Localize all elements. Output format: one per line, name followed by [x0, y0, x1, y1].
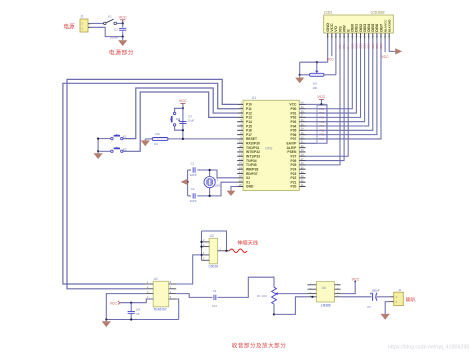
- U2 pin 4: [146, 298, 154, 300]
- connector J2 (speaker): [390, 288, 404, 306]
- U2 pin 6: [169, 293, 177, 295]
- U3 pin 3: [202, 246, 210, 248]
- wire LCD DB1 to P01: [306, 39, 357, 114]
- MCU U1 (AT89C51 CPU): [243, 100, 299, 190]
- wire buttons common left: [97, 139, 99, 152]
- capacitor C3 10uF: [178, 114, 194, 123]
- svg-text:J2: J2: [398, 288, 402, 292]
- wire LCD BLK/GND pin16: [389, 39, 395, 52]
- node pot wiper tie: [316, 61, 318, 63]
- ground (buttons): [97, 151, 99, 153]
- node button K2 left: [97, 150, 99, 152]
- capacitor C5 104: [130, 303, 132, 312]
- svg-text:VCC: VCC: [327, 58, 335, 62]
- pin 39 P00: [299, 108, 305, 110]
- svg-text:12M: 12M: [214, 184, 220, 188]
- U4 pin 4: [307, 296, 316, 298]
- audio amp U4 LM386: [316, 282, 334, 302]
- wire LCD DB4 to P04: [306, 39, 369, 127]
- svg-text:LCD1602: LCD1602: [371, 11, 385, 15]
- svg-text:U1: U1: [252, 96, 256, 100]
- pin 25 P24: [299, 168, 305, 170]
- svg-text:GND: GND: [246, 185, 254, 189]
- wire U3 pin4 to TEA5767: [176, 255, 201, 284]
- pin 20 GND: [237, 185, 243, 187]
- ground (TEA5767): [105, 320, 107, 322]
- svg-text:K2: K2: [123, 147, 127, 151]
- wire net P10 to TEA5767 SDA (rail via left side): [67, 79, 237, 288]
- ground (reset R1): [144, 139, 146, 141]
- svg-text:10K: 10K: [312, 86, 317, 90]
- node U3 pin2 junction: [200, 241, 202, 243]
- pin 5 P14: [237, 121, 243, 123]
- pin 2 P11: [237, 108, 243, 110]
- svg-text:VCC: VCC: [179, 99, 187, 103]
- svg-text:电源部分: 电源部分: [109, 48, 134, 56]
- pin 16 WR/P36: [237, 168, 243, 170]
- ground (crystal, left arrow): [181, 179, 188, 185]
- svg-text:DB7: DB7: [378, 23, 383, 32]
- ground (speaker): [385, 302, 389, 314]
- pin 8 P17: [237, 134, 243, 136]
- wire crystal bottom rail / X1: [188, 195, 191, 197]
- wire J1 pin1 to switch: [91, 22, 104, 24]
- node crystal ground: [187, 181, 189, 183]
- wire reset loop: [175, 108, 183, 112]
- U4 pin 5: [335, 296, 341, 298]
- pin 30 ALE/P: [299, 147, 305, 149]
- pin 14 T0/P34: [237, 160, 243, 162]
- svg-text:10k: 10k: [155, 132, 160, 136]
- pin 29 PSEN: [299, 151, 305, 153]
- svg-text:U2: U2: [154, 277, 158, 281]
- svg-text:P20: P20: [291, 185, 297, 189]
- svg-text:LCD1: LCD1: [324, 11, 333, 15]
- U4 pin 2: [307, 288, 316, 290]
- U2 pin 3: [146, 293, 154, 295]
- pin 34 P05: [299, 129, 305, 131]
- ground (power section): [122, 37, 124, 41]
- pushbutton K3 (reset): [170, 112, 180, 126]
- resistor network RP1 (P0 pull-ups): [317, 105, 327, 143]
- pin 19 X1: [237, 181, 243, 183]
- svg-text:30PF: 30PF: [190, 173, 197, 177]
- svg-text:收音部分及放大部分: 收音部分及放大部分: [232, 342, 286, 350]
- pin 6 P15: [237, 125, 243, 127]
- svg-text:30PF: 30PF: [190, 199, 197, 203]
- node RESET junction: [182, 138, 184, 140]
- svg-text:Y1: Y1: [215, 178, 219, 182]
- wire TEA pin3 AGND loop: [106, 294, 145, 320]
- svg-text:W1: W1: [313, 81, 318, 85]
- svg-text:U3: U3: [210, 234, 214, 238]
- svg-text:J1: J1: [80, 15, 84, 19]
- wire LCD RS to MCU: [306, 39, 341, 165]
- antenna (telescopic): [229, 249, 247, 253]
- ground (LCD backlight, right arrow): [395, 48, 402, 54]
- wire LCD E to MCU: [306, 39, 349, 157]
- pin 22 P21: [299, 181, 305, 183]
- U2 pin 1: [146, 283, 154, 285]
- wire LCD RW to MCU: [306, 39, 345, 161]
- pin 11 TXD/P31: [237, 147, 243, 149]
- wire pot bottom: [273, 304, 275, 314]
- svg-text:C1: C1: [191, 161, 195, 165]
- wire LCD DB0 to P00: [306, 39, 353, 109]
- capacitor C2 100uF: [110, 23, 127, 39]
- svg-text:伸缩天线: 伸缩天线: [237, 238, 258, 246]
- U4 pin 7: [335, 288, 341, 290]
- U3 pin 5: [202, 259, 210, 261]
- VCC power port (MCU): [317, 95, 325, 99]
- pin 10 RXD/P30: [237, 142, 243, 144]
- pin 36 P03: [299, 121, 305, 123]
- U2 pin 7: [169, 288, 177, 290]
- node VCC stem (LM386): [354, 281, 356, 283]
- capacitor C9 104: [214, 295, 216, 300]
- pin 40 VCC: [299, 103, 305, 105]
- wire TEA audio out: [176, 294, 212, 298]
- wire LM386 output: [341, 296, 372, 298]
- node C5 bottom junction: [130, 318, 132, 320]
- wire U3 top loop to pin1: [202, 231, 227, 251]
- ground (LCD contrast): [299, 75, 301, 78]
- wire net P11 to TEA5767 SCL (rail via left side): [63, 83, 237, 284]
- pushbutton K1: [99, 134, 127, 140]
- capacitor C1 30PF: [193, 167, 195, 172]
- svg-text:DB7: DB7: [379, 43, 383, 49]
- svg-text:VCC: VCC: [110, 301, 118, 305]
- svg-text:喇叭: 喇叭: [406, 296, 416, 303]
- svg-text:104: 104: [136, 307, 141, 311]
- pin 31 EA/VP: [299, 142, 305, 144]
- svg-text:R1: R1: [154, 142, 158, 146]
- switch K1: [104, 15, 117, 25]
- wire crystal left side: [187, 170, 189, 196]
- node: switch/cap junction: [122, 22, 124, 24]
- node VCC/resistor-pack: [320, 103, 322, 105]
- wire R1 left to ground: [145, 138, 152, 140]
- svg-text:K1: K1: [108, 15, 112, 19]
- wire VCC pin40 row: [306, 103, 328, 105]
- wire crystal top rail / X2: [188, 169, 191, 171]
- svg-text:100uF: 100uF: [371, 288, 379, 292]
- wire LCD BLA/VCC pin15: [384, 39, 386, 53]
- wire J1 pin2 return path: [91, 27, 123, 36]
- VCC power port (reset): [179, 99, 187, 103]
- wire LCD DB6 to P06: [306, 39, 377, 135]
- svg-text:U4: U4: [322, 286, 326, 290]
- U4 pin 3: [307, 293, 316, 295]
- wire LCD DB3 to P03: [306, 39, 365, 122]
- wire LCD VO pin3 down: [335, 39, 337, 75]
- resistor R1 10k: [152, 132, 168, 146]
- wire left down to pot: [299, 62, 301, 75]
- svg-text:K1: K1: [123, 135, 127, 139]
- node LM386 input junction: [311, 296, 313, 298]
- antenna buffer U3: [209, 238, 217, 263]
- pin 27 P26: [299, 160, 305, 162]
- svg-text:https://blog.csdn.net/qq_41906: https://blog.csdn.net/qq_41906230: [388, 345, 469, 351]
- wire U3 left bus: [201, 231, 203, 260]
- svg-text:电源: 电源: [63, 22, 75, 30]
- pin 37 P02: [299, 116, 305, 118]
- wire button K2 to P13: [123, 92, 237, 151]
- wire LCD DB7 to P07: [306, 39, 382, 139]
- wire pot wiper to LM386 input: [278, 293, 308, 295]
- svg-text:C5: C5: [136, 312, 140, 316]
- U4 pin 1: [307, 284, 316, 286]
- potentiometer W1 10K: [310, 62, 325, 90]
- pin 9 RESET: [237, 138, 243, 140]
- pin 15 T1/P35: [237, 164, 243, 166]
- node U3 pin1/antenna junction: [225, 250, 227, 252]
- wire C7 to speaker connector: [377, 296, 390, 298]
- pin 23 P22: [299, 177, 305, 179]
- node volume pot bottom junction: [273, 313, 275, 315]
- U2 pin 2: [146, 288, 154, 290]
- node reset top: [182, 107, 184, 109]
- VCC power port: [119, 16, 127, 20]
- pin 4 P13: [237, 116, 243, 118]
- U4 pin 8: [335, 284, 341, 286]
- svg-text:TEA5767: TEA5767: [153, 308, 167, 312]
- svg-text:C7: C7: [367, 305, 371, 309]
- node pot left: [299, 74, 301, 76]
- pin 17 RD/P37: [237, 173, 243, 175]
- pushbutton K2: [99, 147, 127, 153]
- pin 18 X2: [237, 177, 243, 179]
- wire pot bottom to LM386: [274, 297, 307, 315]
- svg-text:C2: C2: [191, 187, 195, 191]
- svg-text:LM386: LM386: [321, 303, 331, 307]
- wire button K1 to P12: [123, 88, 237, 139]
- node: cap bottom junction: [122, 36, 124, 38]
- pin 12 INT0/P32: [237, 151, 243, 153]
- ground (MCU GND pin): [231, 187, 237, 191]
- pin 13 INT1/P33: [237, 155, 243, 157]
- crystal Y1 12M: [204, 170, 221, 196]
- U3 pin 1: [218, 250, 230, 252]
- node C5 top junction: [130, 302, 132, 304]
- wire LCD DB2 to P02: [306, 39, 361, 118]
- node crystal top: [209, 169, 211, 171]
- wire R1 to RESET pin: [168, 138, 237, 140]
- wire C9 to volume pot: [217, 277, 274, 297]
- U4 pin 6: [335, 293, 341, 295]
- svg-text:VCC: VCC: [119, 16, 127, 20]
- pin 26 P25: [299, 164, 305, 166]
- svg-text:CPU: CPU: [265, 146, 273, 150]
- wire TEA pin5 to ground rail: [176, 299, 179, 320]
- U3 pin 2: [202, 241, 210, 243]
- wire LCD VCC pin2: [331, 39, 333, 57]
- pin 35 P04: [299, 125, 305, 127]
- node U3 pin3 junction: [200, 246, 202, 248]
- wire VCC rail TEA: [120, 299, 153, 303]
- node reset bottom: [182, 129, 184, 131]
- wire TEA ground rail: [106, 319, 178, 321]
- U2 pin 5: [169, 298, 177, 300]
- radio chip U2 TEA5767: [153, 281, 169, 307]
- pin 38 P01: [299, 112, 305, 114]
- U3 pin 4: [202, 254, 210, 256]
- node crystal bottom: [209, 195, 211, 197]
- wire VCC to LM386: [341, 282, 356, 294]
- pin 33 P06: [299, 134, 305, 136]
- pin 32 P07: [299, 138, 305, 140]
- svg-text:C2: C2: [114, 27, 118, 31]
- U2 pin 8: [169, 283, 177, 285]
- volume resistor R1 103 (zigzag): [272, 287, 277, 304]
- wire GND horizontal to pot: [300, 61, 328, 63]
- svg-text:VCC: VCC: [382, 55, 390, 59]
- wire switch to node: [116, 22, 122, 24]
- svg-text:10uF: 10uF: [187, 119, 194, 123]
- svg-text:100uF: 100uF: [110, 35, 119, 39]
- pin 24 P23: [299, 173, 305, 175]
- wire EA/VP tie to VCC: [306, 104, 328, 143]
- node U3 pin4 junction: [200, 254, 202, 256]
- svg-text:BLA/VCC: BLA/VCC: [383, 20, 387, 32]
- wire pot left lead: [300, 74, 310, 76]
- svg-text:104: 104: [212, 304, 217, 308]
- pin 1 P10: [237, 103, 243, 105]
- wire pot right to VO pin3: [324, 74, 336, 76]
- pin 21 P20: [299, 185, 305, 187]
- svg-text:C9018: C9018: [209, 264, 219, 268]
- node button K1 left: [97, 138, 99, 140]
- connector J1 (power input): [80, 15, 91, 32]
- svg-text:BLK/GND: BLK/GND: [388, 19, 392, 31]
- capacitor C2 30PF (crystal): [193, 193, 195, 198]
- pin 7 P16: [237, 129, 243, 131]
- wire LCD GND pin1 down: [327, 39, 329, 63]
- LCD1 header (LCD1602): [324, 15, 394, 33]
- svg-text:C9: C9: [213, 289, 217, 293]
- svg-text:R1 103: R1 103: [257, 294, 267, 298]
- pin 3 P12: [237, 112, 243, 114]
- capacitor C7 100uF: [367, 288, 380, 308]
- svg-text:VCC: VCC: [317, 95, 325, 99]
- wire LCD DB5 to P05: [306, 39, 373, 131]
- pin 28 P27: [299, 155, 305, 157]
- node ground rail left junction: [105, 318, 107, 320]
